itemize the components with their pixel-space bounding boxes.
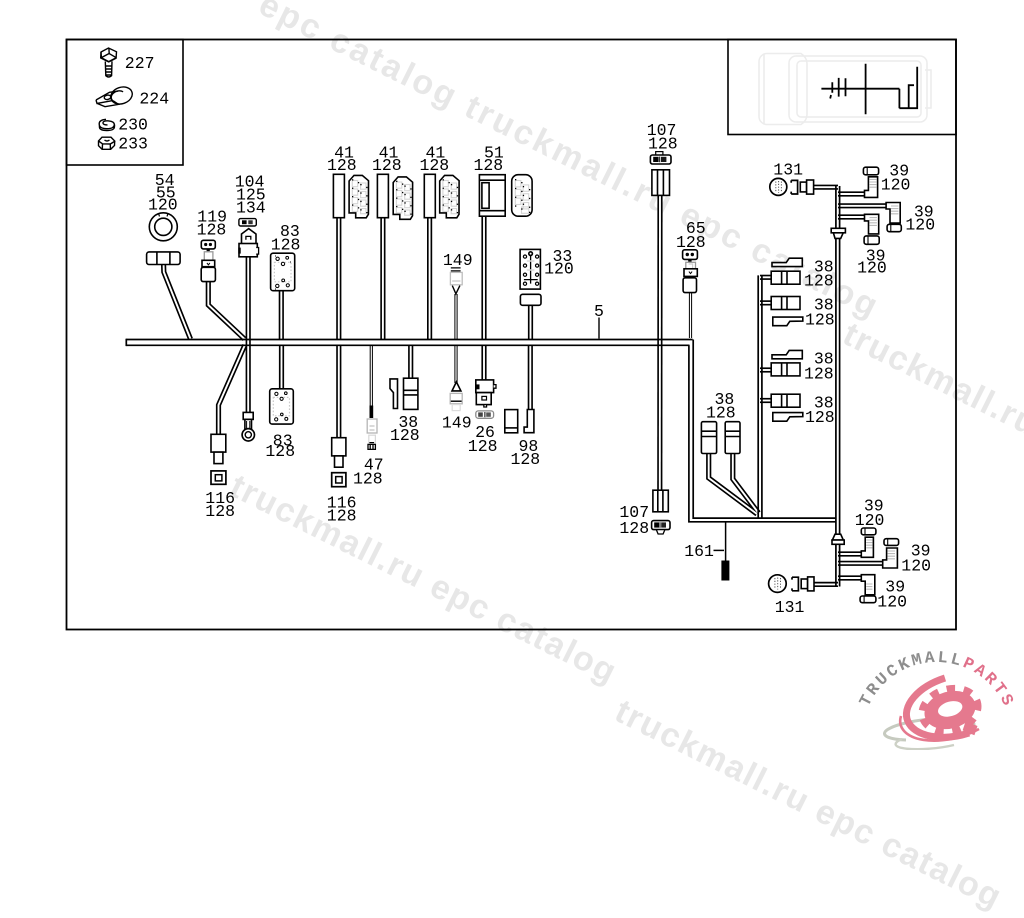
connector 41 #2 plug (377, 174, 388, 217)
connector 83 upper box (271, 253, 295, 291)
connector 33 lower bar (520, 294, 541, 305)
svg-text:134: 134 (236, 199, 266, 218)
connector 116 #1 (211, 434, 226, 463)
stub elbow bot2 (838, 561, 885, 566)
wire 149 upper (455, 294, 457, 339)
connector 33 pin block (520, 249, 541, 305)
connector 54 bar (147, 252, 181, 265)
cab wiring sketch (821, 64, 918, 114)
svg-text:128: 128 (372, 156, 402, 175)
svg-text:131: 131 (773, 160, 803, 179)
connector 107 bottom cap (652, 521, 670, 534)
svg-text:128: 128 (390, 426, 420, 445)
wire 41 #3 branch (427, 216, 432, 339)
watermark fragment W4 (224, 467, 624, 692)
svg-text:128: 128 (265, 442, 295, 461)
elbow 39 top2 (886, 203, 900, 224)
svg-text:128: 128 (619, 519, 649, 538)
label 161 dash (714, 549, 725, 551)
cap 120 bot3 (860, 596, 876, 603)
wire 131 bottom (811, 582, 838, 587)
watermark fragment W1+W2 (253, 0, 887, 327)
svg-text:128: 128 (706, 403, 736, 422)
clamp 224 (96, 84, 134, 106)
wire cylinder 38 #2 (733, 453, 759, 513)
connector 38 cylinder #1 (701, 422, 716, 454)
svg-text:161: 161 (684, 542, 714, 561)
svg-text:120: 120 (905, 215, 935, 234)
elbow 39 bot3 (861, 575, 875, 595)
harness bar 5 top line (126, 339, 692, 341)
stub elbow bot1 (838, 551, 864, 556)
svg-text:128: 128 (327, 156, 357, 175)
connector 47 (grey) (367, 419, 377, 449)
label 5 tick (598, 318, 600, 339)
svg-text:230: 230 (118, 116, 148, 135)
wire 65 branch (689, 292, 691, 338)
svg-text:128: 128 (205, 502, 235, 521)
svg-text:128: 128 (804, 271, 834, 290)
stub elbow top2 (838, 203, 889, 208)
wire 51 branch (481, 215, 486, 339)
wire 47 crimp sleeve (370, 406, 374, 419)
cone terminal bottom (832, 534, 844, 544)
wire 26 branch (481, 345, 486, 381)
wire 149 lower (455, 345, 457, 383)
screw 227 (101, 48, 117, 77)
connector 26 (476, 380, 496, 418)
38-column row3 flag (772, 350, 802, 358)
cap 120 bot1 (861, 528, 876, 535)
svg-text:128: 128 (468, 437, 498, 456)
connector 38 cylinder #2 (725, 422, 740, 454)
stub elbow bot3 (838, 575, 864, 580)
svg-text:120: 120 (857, 258, 887, 277)
connector 107 top cap (650, 152, 671, 164)
grommet 54/55 ring (149, 213, 177, 241)
connector 116 #2 (332, 438, 346, 467)
connector 107 top body (652, 170, 670, 196)
stub elbow top3 (838, 214, 866, 219)
connector 41 #2 socket (393, 177, 412, 219)
svg-text:120: 120 (544, 259, 574, 278)
harness bar 5 bottom line (126, 344, 689, 346)
svg-text:128: 128 (805, 310, 835, 329)
38-column row4 flag (773, 413, 803, 422)
watermark fragment W3 (837, 315, 1024, 478)
wire 98 branch (528, 345, 533, 410)
stub elbow top1 (838, 191, 866, 196)
svg-text:128: 128 (676, 233, 706, 252)
elbow 39 bot1 (861, 537, 873, 557)
svg-text:120: 120 (855, 511, 885, 530)
connector 149 upper (450, 268, 462, 294)
svg-text:128: 128 (648, 134, 678, 153)
connector 104 (238, 219, 258, 257)
38-column row4 connector (771, 394, 800, 407)
38-column vertical line (758, 275, 762, 519)
svg-text:128: 128 (804, 364, 834, 383)
truck outline (faint) (759, 54, 931, 125)
svg-text:149: 149 (443, 251, 473, 270)
svg-text:128: 128 (511, 450, 541, 469)
stub 38-column row3 (760, 367, 773, 372)
connector 149 lower (450, 382, 462, 411)
connector 83 lower box (270, 389, 294, 424)
cone terminal top (831, 228, 845, 238)
connector 98 cover (505, 410, 518, 433)
wire 116 #1 branch (219, 345, 245, 435)
nut 233 (99, 137, 116, 149)
washer 230 (99, 119, 114, 130)
svg-text:227: 227 (125, 54, 155, 73)
svg-text:5: 5 (594, 302, 604, 321)
TRUCKMALLPARTS logo (856, 648, 1019, 749)
clip symbol 116 #1 (211, 471, 226, 484)
38-column row2 connector (771, 297, 800, 310)
ring terminal below 104 (242, 412, 254, 441)
right main vertical line (836, 186, 840, 587)
stub 38-column row2 (760, 300, 773, 305)
stub 38-column row1 (760, 275, 773, 280)
wire 161 drop (725, 521, 727, 561)
harness U-bend inner line (693, 340, 836, 519)
svg-text:128: 128 (197, 220, 227, 239)
connector 65 (683, 250, 698, 293)
connectors layer (147, 152, 698, 306)
svg-text:128: 128 (474, 156, 504, 175)
connector 38 lower body (404, 378, 418, 409)
watermark fragment W5 (609, 692, 1009, 917)
elbow 39 top1 (865, 177, 878, 198)
wire 38 lower branch (408, 345, 413, 379)
svg-text:131: 131 (775, 598, 805, 617)
elbow 39 top3 (865, 214, 879, 234)
cap 120 top3 (864, 236, 879, 244)
legend box top-left (67, 40, 184, 166)
svg-text:128: 128 (271, 236, 301, 255)
svg-text:149: 149 (442, 414, 472, 433)
38-column row3 connector (771, 363, 800, 376)
svg-text:120: 120 (148, 196, 178, 215)
wire 54 branch (164, 262, 191, 339)
svg-text:128: 128 (327, 506, 357, 525)
wire 131 top (813, 185, 838, 190)
wire 119 branch (208, 280, 244, 339)
connector 98 boot (524, 410, 534, 433)
svg-text:233: 233 (118, 135, 148, 154)
harness U-bend outer line (689, 345, 837, 522)
wire 41 #1 branch (336, 216, 341, 339)
svg-text:128: 128 (353, 470, 383, 489)
elbow 39 bot2 (883, 548, 898, 568)
cable end 161 (black sleeve) (721, 561, 729, 581)
main harness lines (126, 186, 839, 587)
38-column row2 flag (773, 317, 803, 326)
connector 119 (201, 240, 215, 281)
connector 41 #1 socket (349, 175, 368, 217)
connector 107 bottom body (653, 490, 668, 512)
svg-text:128: 128 (420, 156, 450, 175)
connector 131 top (770, 178, 814, 195)
location box top-right (728, 40, 956, 135)
cap 120 bot2 (884, 539, 899, 546)
connector 131 bottom (769, 575, 814, 593)
connector 41 #3 plug (424, 174, 435, 217)
wire 83 lower branch (279, 345, 284, 390)
thin wires (370, 292, 691, 406)
wire cylinder 38 #1 (709, 453, 757, 514)
svg-text:224: 224 (139, 89, 169, 108)
connector 41 #1 plug (333, 174, 344, 217)
wire 116 #2 branch (336, 345, 341, 438)
wire 104 branch (246, 255, 251, 412)
connector 51 socket (512, 175, 532, 217)
svg-text:120: 120 (881, 175, 911, 194)
cap 120 top1 (863, 167, 878, 175)
38-column row1 flag (772, 258, 802, 266)
clip symbol 116 #2 (332, 473, 346, 487)
harness bar left end cap (125, 339, 127, 346)
svg-text:120: 120 (901, 556, 931, 575)
wire 41 #2 branch (380, 216, 385, 339)
wires layer (164, 187, 890, 584)
connector 38 lower lever (390, 379, 398, 409)
outer border frame (67, 40, 957, 630)
wire 33 branch (528, 305, 533, 339)
svg-text:128: 128 (805, 408, 835, 427)
stub 38-column row4 (760, 398, 773, 403)
38-column row1 connector (771, 271, 800, 284)
svg-text:120: 120 (877, 592, 907, 611)
wire 47 branch (370, 345, 372, 406)
connector 41 #3 socket (440, 175, 459, 217)
wire 83 upper branch (279, 289, 284, 339)
cap 120 top2 (887, 224, 901, 231)
wire 107 long branch (657, 194, 662, 490)
connector 51 plug (479, 175, 505, 217)
